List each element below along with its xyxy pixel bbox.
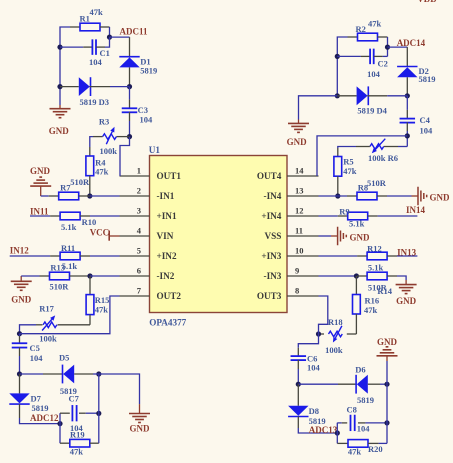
svg-text:GND: GND bbox=[377, 337, 398, 347]
svg-text:100k: 100k bbox=[39, 334, 57, 344]
svg-text:OPA4377: OPA4377 bbox=[149, 317, 186, 327]
svg-text:47k: 47k bbox=[95, 167, 109, 177]
svg-text:R1: R1 bbox=[80, 14, 90, 24]
svg-text:47k: 47k bbox=[90, 7, 104, 17]
svg-text:C8: C8 bbox=[347, 405, 357, 415]
svg-text:C2: C2 bbox=[378, 59, 388, 69]
svg-text:GND: GND bbox=[130, 424, 151, 434]
svg-text:104: 104 bbox=[367, 69, 381, 79]
svg-text:OUT3: OUT3 bbox=[257, 291, 282, 301]
svg-text:+IN2: +IN2 bbox=[157, 251, 177, 261]
svg-text:ADC14: ADC14 bbox=[397, 38, 426, 48]
svg-text:IN11: IN11 bbox=[30, 207, 49, 217]
svg-text:5819 D4: 5819 D4 bbox=[357, 106, 387, 116]
svg-text:GND: GND bbox=[430, 193, 451, 203]
svg-text:47k: 47k bbox=[368, 19, 382, 29]
svg-text:R3: R3 bbox=[99, 117, 109, 127]
svg-text:R12: R12 bbox=[367, 244, 382, 254]
svg-text:5: 5 bbox=[137, 246, 141, 256]
svg-text:GND: GND bbox=[350, 233, 371, 243]
svg-text:D5: D5 bbox=[59, 353, 69, 363]
svg-text:5819: 5819 bbox=[32, 403, 49, 413]
svg-text:GND: GND bbox=[287, 137, 308, 147]
svg-text:+IN3: +IN3 bbox=[261, 251, 281, 261]
svg-text:5819 D3: 5819 D3 bbox=[80, 97, 110, 107]
svg-text:C5: C5 bbox=[30, 343, 40, 353]
svg-text:100k R6: 100k R6 bbox=[368, 153, 398, 163]
svg-text:OUT4: OUT4 bbox=[257, 171, 282, 181]
svg-text:VIN: VIN bbox=[157, 231, 174, 241]
svg-text:R15: R15 bbox=[95, 295, 110, 305]
svg-text:5.1k: 5.1k bbox=[61, 222, 77, 232]
svg-text:5.1k: 5.1k bbox=[62, 261, 78, 271]
svg-text:104: 104 bbox=[307, 363, 321, 373]
svg-text:D8: D8 bbox=[309, 406, 319, 416]
svg-text:10: 10 bbox=[295, 246, 304, 256]
svg-text:C7: C7 bbox=[69, 394, 80, 404]
svg-text:47k: 47k bbox=[70, 447, 84, 457]
svg-text:11: 11 bbox=[295, 226, 303, 236]
svg-text:14: 14 bbox=[295, 166, 304, 176]
svg-text:510R: 510R bbox=[50, 282, 70, 292]
svg-text:5.1k: 5.1k bbox=[349, 219, 365, 229]
svg-text:100k: 100k bbox=[100, 146, 118, 156]
svg-text:ADC12: ADC12 bbox=[30, 413, 59, 423]
svg-text:3: 3 bbox=[137, 206, 141, 216]
svg-text:D6: D6 bbox=[355, 365, 365, 375]
svg-text:R14: R14 bbox=[377, 286, 392, 296]
svg-text:9: 9 bbox=[295, 266, 299, 276]
svg-text:R9: R9 bbox=[339, 207, 349, 217]
svg-text:R2: R2 bbox=[356, 24, 366, 34]
svg-text:OUT1: OUT1 bbox=[157, 171, 182, 181]
svg-text:ADC11: ADC11 bbox=[120, 27, 149, 37]
svg-text:104: 104 bbox=[357, 424, 371, 434]
svg-text:104: 104 bbox=[89, 57, 103, 67]
svg-text:GND: GND bbox=[30, 166, 51, 176]
svg-text:1: 1 bbox=[137, 166, 141, 176]
svg-text:12: 12 bbox=[295, 206, 304, 216]
svg-text:5819: 5819 bbox=[419, 74, 436, 84]
svg-text:-IN3: -IN3 bbox=[264, 271, 282, 281]
svg-text:R20: R20 bbox=[368, 444, 383, 454]
svg-text:47k: 47k bbox=[348, 447, 362, 457]
svg-text:6: 6 bbox=[137, 266, 141, 276]
svg-text:2: 2 bbox=[137, 186, 141, 196]
svg-text:104: 104 bbox=[30, 353, 44, 363]
svg-text:-IN1: -IN1 bbox=[157, 191, 175, 201]
svg-text:R18: R18 bbox=[328, 317, 343, 327]
svg-text:47k: 47k bbox=[343, 166, 357, 176]
svg-text:R11: R11 bbox=[61, 243, 75, 253]
svg-text:R17: R17 bbox=[39, 304, 54, 314]
svg-text:VCC: VCC bbox=[90, 228, 110, 238]
svg-text:5819: 5819 bbox=[140, 66, 157, 76]
svg-text:8: 8 bbox=[295, 286, 299, 296]
svg-text:ADC13: ADC13 bbox=[309, 425, 338, 435]
svg-text:R16: R16 bbox=[365, 295, 380, 305]
svg-text:IN13: IN13 bbox=[397, 248, 417, 258]
svg-text:510R: 510R bbox=[70, 177, 90, 187]
svg-text:OUT2: OUT2 bbox=[157, 291, 182, 301]
svg-text:-IN2: -IN2 bbox=[157, 271, 175, 281]
svg-text:GND: GND bbox=[396, 296, 417, 306]
svg-text:C4: C4 bbox=[420, 115, 431, 125]
svg-text:+IN1: +IN1 bbox=[157, 211, 177, 221]
svg-text:-IN4: -IN4 bbox=[264, 191, 282, 201]
svg-text:47k: 47k bbox=[364, 305, 378, 315]
svg-text:GND: GND bbox=[49, 126, 70, 136]
svg-text:R10: R10 bbox=[82, 217, 97, 227]
svg-text:GND: GND bbox=[11, 295, 32, 305]
svg-text:IN14: IN14 bbox=[406, 205, 426, 215]
svg-text:5.1k: 5.1k bbox=[368, 263, 384, 273]
svg-text:VSS: VSS bbox=[265, 231, 282, 241]
svg-text:U1: U1 bbox=[149, 145, 161, 155]
svg-text:5819: 5819 bbox=[357, 395, 374, 405]
svg-text:+IN4: +IN4 bbox=[261, 211, 281, 221]
svg-text:47k: 47k bbox=[95, 305, 109, 315]
svg-text:100k: 100k bbox=[325, 345, 343, 355]
svg-text:R19: R19 bbox=[70, 429, 85, 439]
svg-text:104: 104 bbox=[140, 114, 154, 124]
svg-text:VDD: VDD bbox=[417, 0, 437, 4]
svg-text:104: 104 bbox=[420, 126, 434, 136]
svg-text:510R: 510R bbox=[367, 178, 387, 188]
svg-text:13: 13 bbox=[295, 186, 304, 196]
svg-text:D7: D7 bbox=[31, 394, 42, 404]
svg-text:IN12: IN12 bbox=[10, 246, 30, 256]
